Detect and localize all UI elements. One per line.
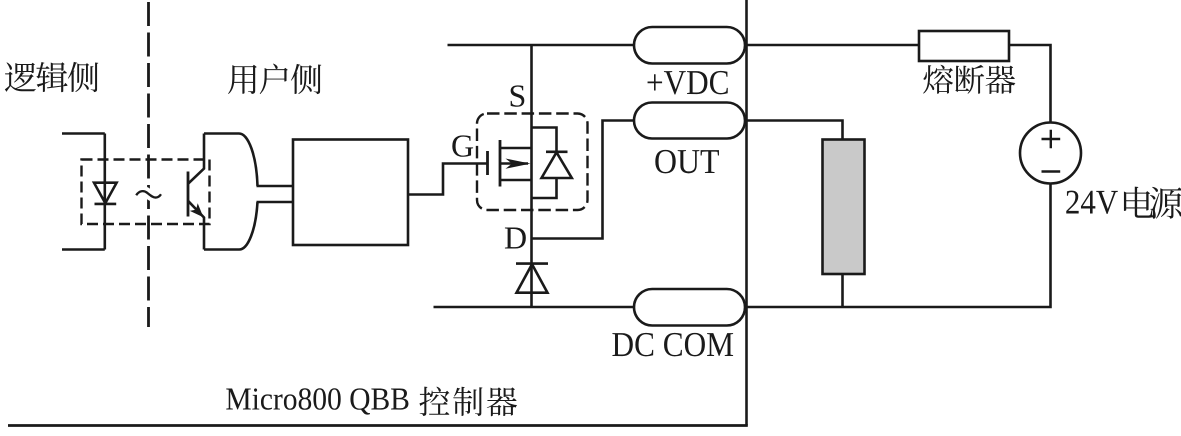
MOSFET Q2: source connection: [500, 147, 532, 150]
minus sign inside source: [1042, 170, 1061, 172]
label: user side 用户侧: [228, 64, 321, 95]
label G (gate pin): [452, 135, 473, 156]
MOSFET Q2 dashed box: [477, 114, 588, 211]
label +VDC: [648, 71, 728, 95]
label: fuse 熔断器: [923, 65, 1015, 94]
terminal +VDC (stadium): [634, 27, 745, 64]
label OUT: [655, 150, 719, 174]
label: Micro800 QBB controller: [226, 388, 408, 414]
dashed separator line between logic side and user side: [147, 2, 150, 327]
24V power source V1 (circle): [1020, 123, 1081, 184]
wire: OUT terminal to load: [745, 121, 843, 140]
terminal OUT (stadium): [634, 103, 745, 139]
MOSFET Q2: body diode (cathode bar + triangle): [532, 128, 572, 199]
freewheel diode D2 across output (pointing up): [516, 264, 548, 293]
load resistor (shaded rectangle): [823, 140, 865, 275]
label DC COM: [612, 333, 733, 357]
label: logic side 逻辑侧: [5, 62, 98, 92]
wire: LED cathode stub bottom-left: [62, 248, 105, 251]
plus sign inside source: [1042, 130, 1061, 149]
controller enclosure: right border: [745, 0, 748, 426]
MOSFET Q2: channel bar: [499, 140, 502, 187]
controller enclosure: bottom border: [8, 424, 748, 427]
phototransistor Q1: base bar: [187, 172, 190, 217]
wire: source negative to DC COM rail: [745, 184, 1052, 308]
label: 24V power supply: [1066, 191, 1118, 214]
wire: driver output to MOSFET gate: [408, 164, 487, 195]
LED D1 (optocoupler input diode, pointing down): [94, 183, 117, 204]
terminal DC COM (stadium): [634, 289, 745, 326]
white halo under coupling symbol (interrupts dashed line): [136, 191, 161, 197]
connector pair: gate to driver box: [257, 186, 294, 202]
buffer gate (D-shape) driving stage: [204, 134, 258, 250]
optocoupler coupling symbol ~: [136, 191, 161, 197]
wire: fuse to 24V source: [1009, 45, 1051, 123]
phototransistor Q1: collector: [188, 134, 204, 184]
fuse F1 (rectangle): [919, 31, 1009, 61]
wire: DC COM rail bottom: [434, 306, 635, 309]
wire: LED branch vertical: [104, 134, 107, 250]
MOSFET Q2: gate electrode bar: [486, 151, 489, 175]
phototransistor Q1: emitter with arrow: [188, 201, 204, 250]
wire: load bottom to DC COM rail: [841, 274, 844, 307]
wire: LED anode stub top-left: [62, 132, 105, 135]
MOSFET Q2: drain connection: [500, 179, 532, 182]
MOSFET Q2: body arrow pointing right: [500, 162, 528, 165]
wire: +VDC rail top: [448, 44, 635, 47]
wire: main switched line (S at top through MOSFET to D): [530, 45, 533, 307]
label D (drain pin): [505, 228, 526, 249]
optocoupler U1 dashed box: [82, 160, 210, 225]
driver block (rectangle): [293, 140, 408, 246]
wire: +VDC terminal to fuse: [745, 44, 919, 47]
wire: OUT to drain node: [532, 121, 635, 239]
label S (source pin): [511, 85, 525, 106]
